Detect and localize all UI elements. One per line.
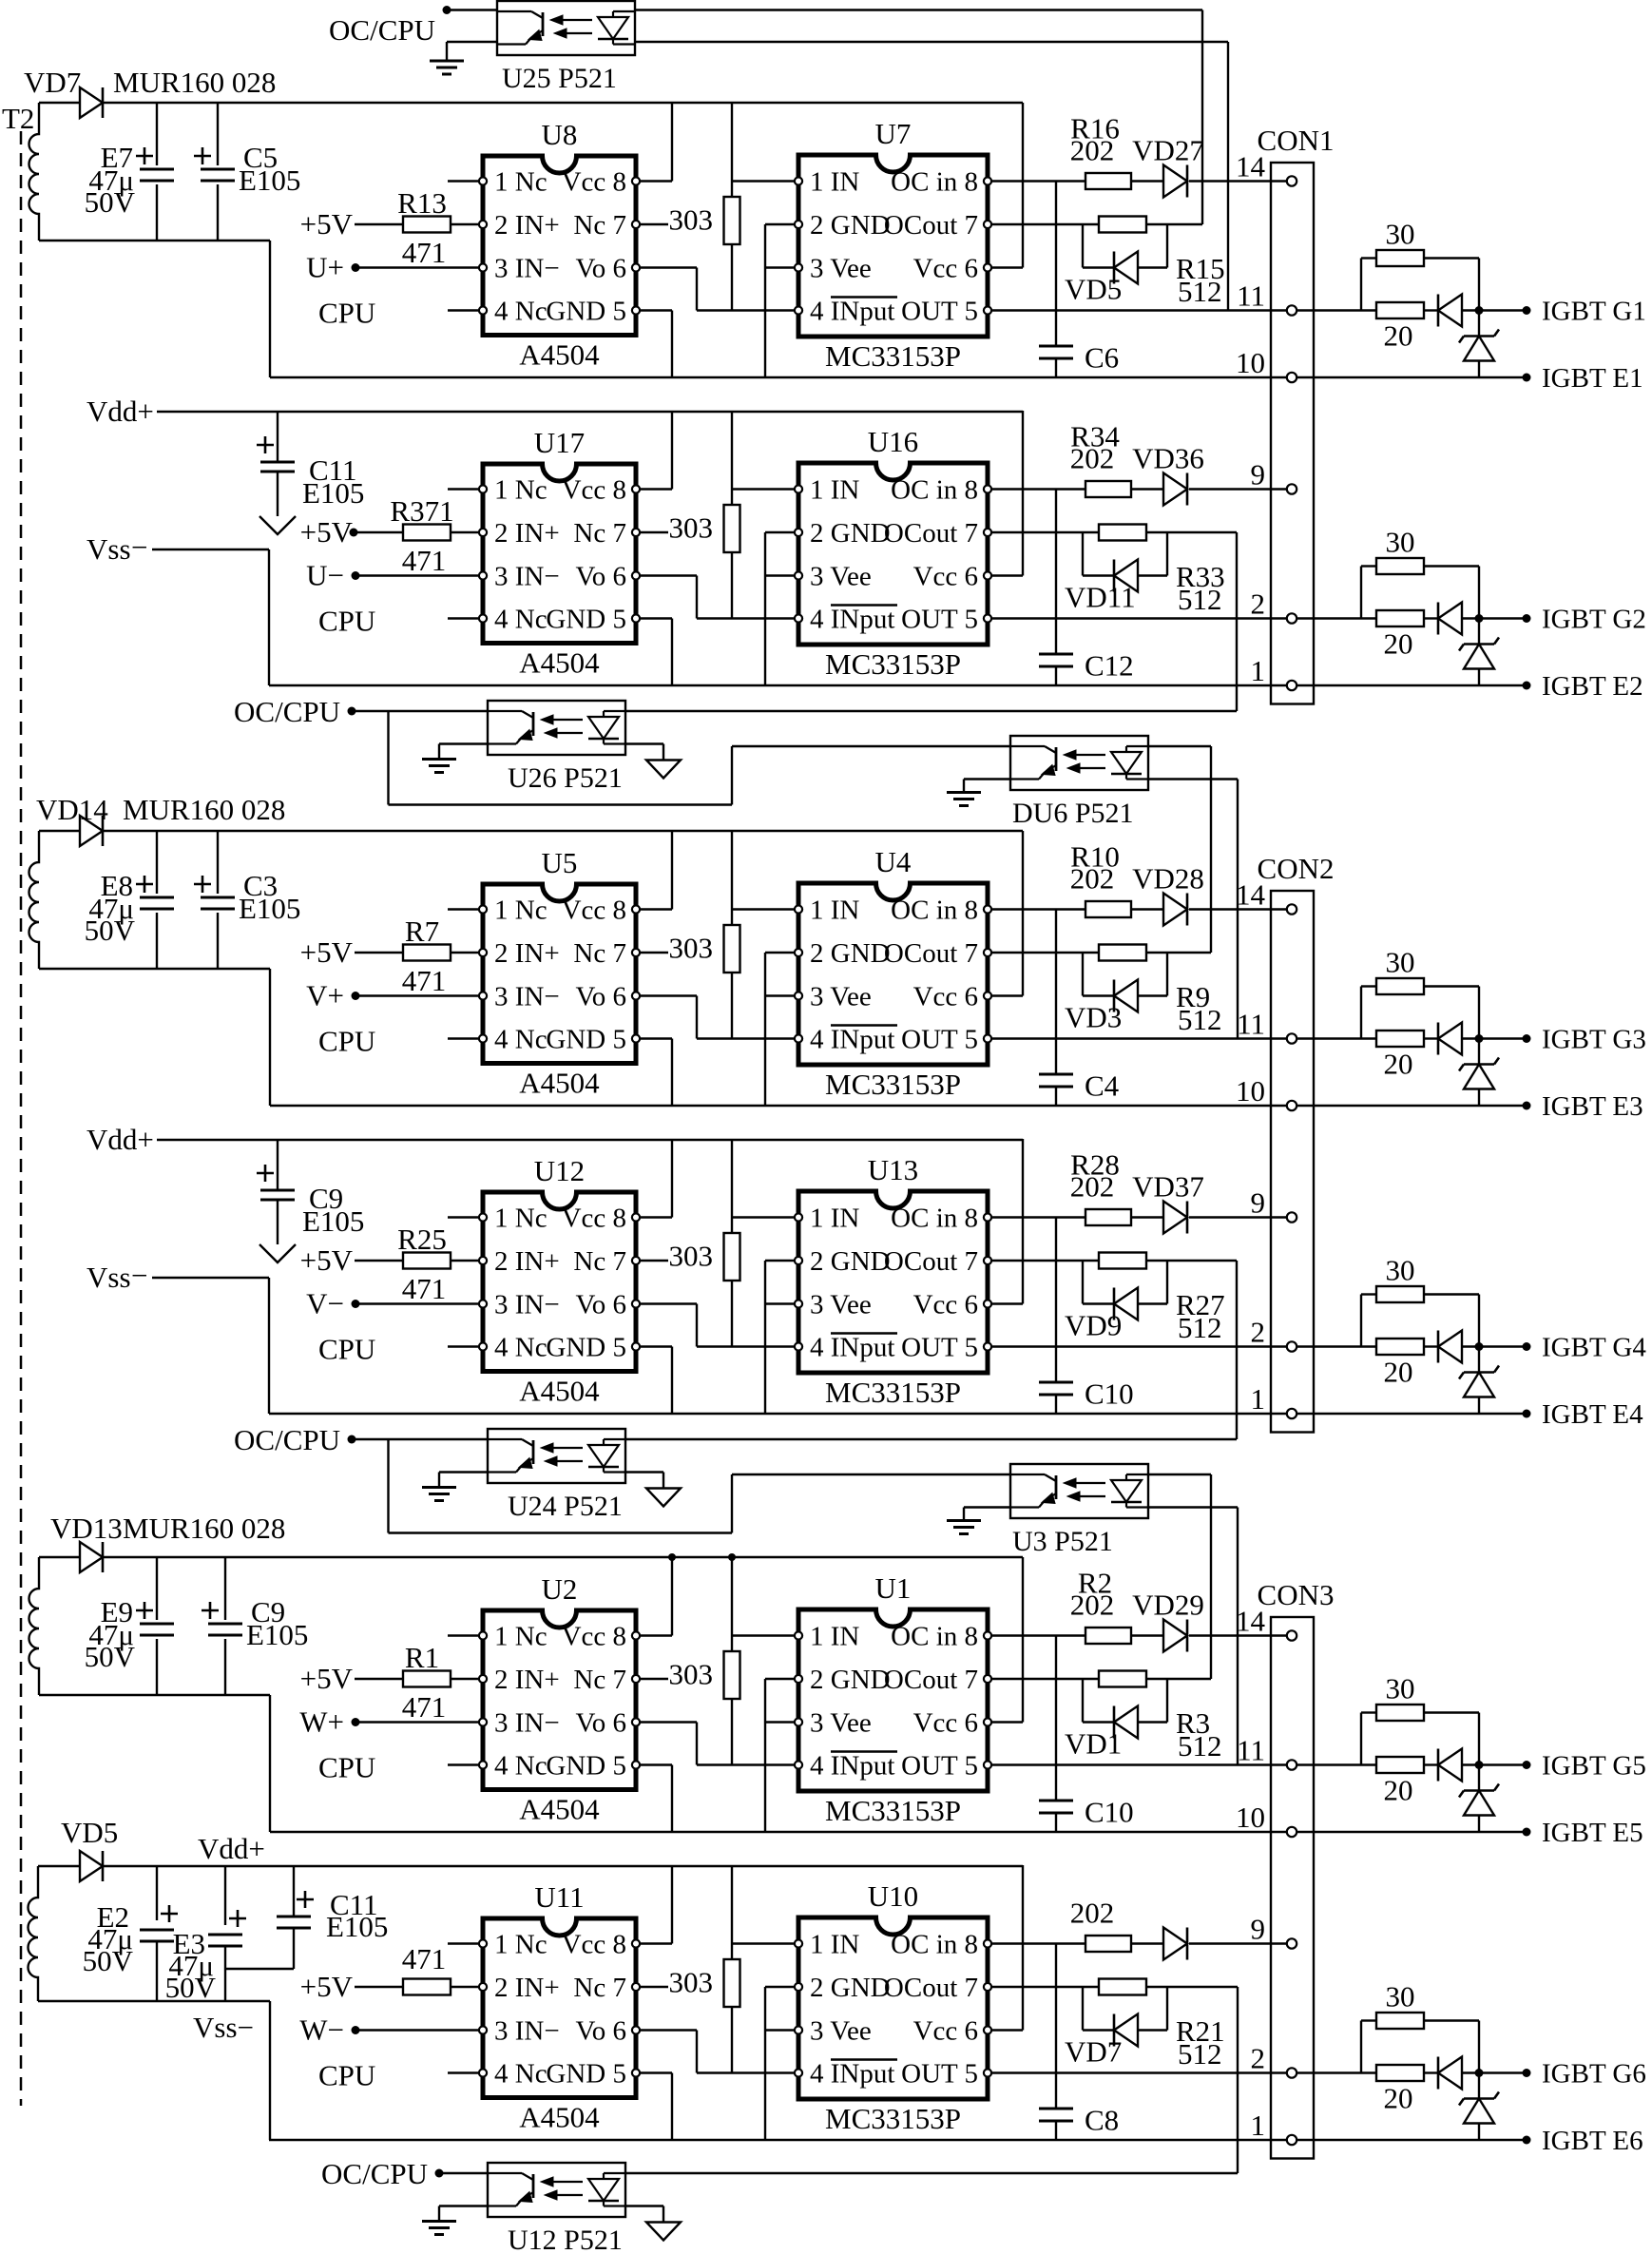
svg-text:50V: 50V [83, 1944, 134, 1977]
gate resistor 30 parallel branch [1360, 2021, 1362, 2073]
gate resistor 20 [1376, 1031, 1424, 1047]
svg-text:IGBT G3: IGBT G3 [1542, 1025, 1646, 1055]
svg-text:4 Nc: 4 Nc [494, 1025, 547, 1055]
svg-text:14: 14 [1236, 878, 1266, 912]
Vss wire to bottom rail [152, 1277, 269, 1279]
DU6 LED cathode wire down to OUT line [1149, 778, 1238, 780]
wire U8 Vo pin 6 to U7 INput pin 4 [641, 266, 697, 268]
resistor R25 471 [355, 1260, 403, 1262]
wire stub to U17 pin 1 [448, 488, 478, 490]
wire U8 GND pin 5 to bottom rail [641, 309, 672, 311]
optocoupler DU6 P521 LED [1126, 745, 1148, 747]
svg-text:2 IN+: 2 IN+ [494, 518, 560, 549]
svg-text:Vcc 6: Vcc 6 [913, 562, 978, 592]
svg-text:+5V: +5V [300, 1662, 354, 1695]
ground (U24) [422, 1486, 456, 1489]
resistor 471 471 [355, 1986, 403, 1988]
wire U1 OC in pin 8 to resistor R2 [992, 1634, 1085, 1636]
optocoupler U24 P521 body [488, 1429, 625, 1483]
svg-text:VD14: VD14 [36, 793, 108, 826]
wire supply rail to U4 IN pin 1 [731, 831, 733, 925]
svg-text:3 Vee: 3 Vee [810, 562, 872, 592]
wire U11 GND pin 5 to bottom rail [641, 2071, 672, 2073]
svg-text:OCout 7: OCout 7 [884, 1246, 978, 1277]
wire U16 Vcc pin 6 to supply rail [992, 574, 1023, 576]
diode VD11 anti-parallel [1082, 532, 1084, 576]
wire to diode VD27 [1131, 180, 1163, 182]
wire stub U2 pin 7 [641, 1678, 668, 1680]
svg-text:2 GND: 2 GND [810, 938, 891, 969]
wire supply rail to U7 IN pin 1 [731, 103, 733, 197]
svg-text:MC33153P: MC33153P [825, 339, 961, 373]
wire U1 OUT pin 5 / connector pin line [992, 1763, 1376, 1765]
gate diode [1424, 617, 1438, 619]
svg-text:VD13: VD13 [50, 1512, 123, 1545]
capacitor C6 [1055, 182, 1057, 345]
wire 303 resistor to INput line [731, 244, 733, 311]
svg-text:50V: 50V [165, 1971, 217, 2004]
wire to bottom rail [269, 2001, 271, 2140]
svg-text:4 INput: 4 INput [810, 1333, 894, 1363]
terminal IGBT G6 [1523, 2069, 1531, 2077]
resistor R10 202 [1085, 901, 1131, 917]
decoupling capacitor C11 E105 [277, 412, 279, 462]
svg-text:IGBT E5: IGBT E5 [1542, 1818, 1643, 1848]
svg-text:CON3: CON3 [1258, 1578, 1335, 1611]
wire U7 OCout pin 7 to resistor R15 [992, 223, 1099, 225]
terminal IGBT E2 [1523, 682, 1531, 690]
electrolytic capacitor E8 47u 50V [156, 831, 158, 969]
Vdd+ rail [157, 1139, 1023, 1141]
diode VD29 [1163, 1620, 1187, 1652]
wire U13 Vcc pin 6 to supply rail [992, 1302, 1023, 1304]
svg-text:4 INput: 4 INput [810, 1751, 894, 1782]
U26 LED anode wire from R512 node [625, 710, 1237, 712]
wire U16 OC in pin 8 to resistor R34 [992, 488, 1085, 490]
resistor R27 512 [1099, 1253, 1146, 1269]
U24 emitter wire to ground [439, 1471, 488, 1473]
wire U10 GND pin 2 / Vee pin 3 to bottom rail [765, 1986, 794, 1988]
svg-text:CPU: CPU [318, 1025, 375, 1058]
svg-text:VD11: VD11 [1065, 581, 1136, 614]
svg-text:3 Vee: 3 Vee [810, 2016, 872, 2047]
zener clamp diode [1478, 1765, 1480, 1791]
svg-text:E105: E105 [246, 1618, 308, 1651]
svg-text:Vo 6: Vo 6 [576, 2016, 626, 2047]
svg-text:DU6 P521: DU6 P521 [1012, 798, 1134, 829]
svg-text:2 GND: 2 GND [810, 518, 891, 549]
svg-text:3 IN−: 3 IN− [494, 1290, 560, 1320]
svg-text:1 Nc: 1 Nc [494, 167, 547, 198]
terminal IGBT E1 [1523, 374, 1531, 382]
svg-text:VD27: VD27 [1132, 134, 1204, 167]
wire U1 GND pin 2 / Vee pin 3 to bottom rail [765, 1678, 794, 1680]
gate driver IC U4 (MC33153P) [798, 883, 988, 1065]
svg-text:4 INput: 4 INput [810, 2059, 894, 2090]
wire U2 Vo pin 6 to U1 INput pin 4 [641, 1721, 697, 1723]
svg-text:Vdd+: Vdd+ [86, 395, 154, 428]
resistor 303 [724, 1651, 740, 1699]
wire to diode VD36 [1131, 488, 1163, 490]
capacitor C12 [1055, 490, 1057, 653]
resistor R9 512 [1099, 945, 1146, 961]
optocoupler U3 P521 light arrows [1071, 1482, 1105, 1484]
opto-isolator IC U17 (A4504) [483, 464, 636, 644]
zener clamp diode [1478, 1039, 1480, 1065]
svg-text:C6: C6 [1085, 341, 1119, 375]
resistor 303 [724, 1233, 740, 1281]
bottom rail row [270, 1105, 1376, 1107]
wire U5 GND pin 5 to bottom rail [641, 1037, 672, 1039]
opto-isolator IC U11 (A4504) [483, 1918, 636, 2098]
svg-text:IGBT G2: IGBT G2 [1542, 605, 1646, 635]
wire stub to U2 pin 4 [448, 1763, 478, 1765]
svg-text:4 Nc: 4 Nc [494, 1751, 547, 1782]
wire diode to CON pin [1189, 1942, 1286, 1944]
optocoupler U12 P521 light arrows [548, 2181, 583, 2183]
wire winding bottom [38, 2000, 270, 2002]
svg-text:Vcc 8: Vcc 8 [562, 1204, 626, 1234]
svg-text:471: 471 [402, 236, 447, 269]
wire U1 Vcc pin 6 to supply rail [992, 1721, 1023, 1723]
optocoupler U25 P521 light arrows [558, 19, 592, 21]
svg-text:E105: E105 [302, 1204, 364, 1238]
resistor R16 202 [1085, 173, 1131, 189]
transformer T2 winding [29, 1866, 39, 2001]
svg-text:471: 471 [402, 1942, 447, 1975]
wire stub to U17 pin 4 [448, 617, 478, 619]
node OC/CPU (U25) [443, 6, 451, 14]
wire U10 OC in pin 8 to resistor 202 [992, 1942, 1085, 1944]
svg-text:Nc 7: Nc 7 [573, 1973, 626, 2003]
resistor R33 512 [1099, 525, 1146, 541]
svg-text:1 IN: 1 IN [810, 1204, 859, 1234]
bottom rail row2 [269, 1413, 1376, 1415]
svg-text:IGBT E4: IGBT E4 [1542, 1399, 1643, 1430]
junction gate node [1475, 1034, 1484, 1043]
gate resistor 20 [1376, 1339, 1424, 1355]
svg-text:V+: V+ [306, 979, 344, 1012]
gate driver IC U1 (MC33153P) [798, 1609, 988, 1791]
U12 collector wire [439, 2172, 488, 2174]
svg-text:Vcc 8: Vcc 8 [562, 1622, 626, 1652]
capacitor C4 [1055, 910, 1057, 1073]
wire U17 GND pin 5 to bottom rail [641, 617, 672, 619]
node OC/CPU (U24) [348, 1435, 356, 1444]
svg-text:30: 30 [1386, 1254, 1415, 1287]
svg-text:2 GND: 2 GND [810, 1246, 891, 1277]
optocoupler U3 P521 phototransistor [1010, 1474, 1045, 1475]
gate resistor 20 [1376, 2065, 1424, 2081]
chassis ground for cap [259, 1244, 296, 1262]
svg-text:3 Vee: 3 Vee [810, 982, 872, 1012]
U3 LED anode wire down to OCout node [1149, 1474, 1211, 1475]
svg-text:GND 5: GND 5 [546, 2059, 626, 2090]
svg-text:1 Nc: 1 Nc [494, 1930, 547, 1960]
svg-text:R1: R1 [405, 1641, 439, 1674]
optocoupler U26 P521 light arrows [548, 719, 583, 721]
svg-text:30: 30 [1386, 1672, 1415, 1705]
svg-text:471: 471 [402, 1272, 447, 1305]
electrolytic capacitor E3 47u 50V [224, 1866, 226, 2001]
svg-text:512: 512 [1178, 2037, 1222, 2071]
svg-text:2 GND: 2 GND [810, 1973, 891, 2003]
wire U12 GND pin 5 to bottom rail [641, 1345, 672, 1347]
wire U11 Vo pin 6 to U10 INput pin 4 [641, 2029, 697, 2031]
svg-text:GND 5: GND 5 [546, 605, 626, 635]
U24 collector wire [352, 1438, 488, 1440]
bottom rail row2 [269, 2139, 1376, 2141]
wire U13 OC in pin 8 to resistor R28 [992, 1216, 1085, 1218]
Vdd+ rail [157, 411, 1023, 413]
svg-text:4 Nc: 4 Nc [494, 2059, 547, 2090]
svg-text:CPU: CPU [318, 1751, 375, 1784]
svg-text:C10: C10 [1085, 1377, 1134, 1411]
svg-text:1 IN: 1 IN [810, 1930, 859, 1960]
svg-text:1 IN: 1 IN [810, 475, 859, 506]
floating net symbol (U26) [646, 761, 681, 779]
gate driver IC U10 (MC33153P) [798, 1917, 988, 2099]
svg-text:303: 303 [669, 203, 714, 237]
ground (U26) [422, 758, 456, 761]
svg-text:U25 P521: U25 P521 [502, 63, 617, 94]
wire diode to CON pin [1189, 488, 1286, 490]
wire U5 Vo pin 6 to U4 INput pin 4 [641, 994, 697, 996]
resistor R15 512 [1099, 217, 1146, 233]
svg-text:1 IN: 1 IN [810, 1622, 859, 1652]
svg-text:OC in 8: OC in 8 [891, 1930, 978, 1960]
optocoupler U25 P521 body [497, 1, 635, 55]
svg-text:IGBT E6: IGBT E6 [1542, 2126, 1643, 2156]
svg-text:U13: U13 [868, 1153, 918, 1186]
resistor R21 512 [1099, 1979, 1146, 1995]
wire cap bottom to row bottom rail [269, 969, 271, 1106]
svg-text:OC in 8: OC in 8 [891, 1204, 978, 1234]
wire U10 OCout pin 7 to resistor R21 [992, 1986, 1099, 1988]
svg-text:C12: C12 [1085, 649, 1134, 683]
gate diode [1424, 1037, 1438, 1039]
svg-text:CPU: CPU [318, 297, 375, 330]
gate resistor 30 parallel branch [1360, 1713, 1362, 1765]
optocoupler U3 P521 LED [1126, 1474, 1148, 1475]
wire U7 Vcc pin 6 to supply rail [992, 266, 1023, 268]
svg-text:10: 10 [1236, 1074, 1265, 1108]
svg-text:MUR160 028: MUR160 028 [123, 793, 285, 826]
svg-text:OC/CPU: OC/CPU [321, 2157, 428, 2190]
svg-text:50V: 50V [85, 1640, 136, 1673]
U24 LED cathode wire to floating symbol [625, 1471, 663, 1473]
svg-text:1 Nc: 1 Nc [494, 896, 547, 926]
optocoupler U26 P521 body [488, 701, 625, 755]
svg-text:4 Nc: 4 Nc [494, 605, 547, 635]
svg-text:U24 P521: U24 P521 [508, 1491, 623, 1522]
junction gate node [1475, 614, 1484, 623]
wire U16 GND pin 2 / Vee pin 3 to bottom rail [765, 531, 794, 533]
node OC/CPU (U26) [348, 707, 356, 716]
U24 LED anode wire from R512 node [625, 1438, 1237, 1440]
svg-text:W+: W+ [299, 1705, 344, 1739]
svg-text:14: 14 [1236, 1605, 1266, 1638]
svg-text:IGBT E1: IGBT E1 [1542, 363, 1643, 394]
zener clamp diode [1478, 2073, 1480, 2099]
svg-text:3 Vee: 3 Vee [810, 254, 872, 284]
optocoupler U12 P521 LED [604, 2172, 625, 2174]
wire to diode VD37 [1131, 1216, 1163, 1218]
svg-text:512: 512 [1178, 1003, 1222, 1036]
svg-text:OC in 8: OC in 8 [891, 475, 978, 506]
svg-text:U−: U− [306, 559, 344, 592]
svg-text:2 IN+: 2 IN+ [494, 1246, 560, 1277]
terminal IGBT G3 [1523, 1034, 1531, 1043]
diode VD5 anti-parallel [1082, 224, 1084, 268]
diode VD3 anti-parallel [1082, 953, 1084, 996]
wire U11 Vcc pin 8 to supply rail [641, 1942, 672, 1944]
svg-text:Vcc 6: Vcc 6 [913, 254, 978, 284]
svg-text:20: 20 [1384, 1774, 1413, 1807]
svg-text:1 IN: 1 IN [810, 896, 859, 926]
svg-text:R25: R25 [397, 1223, 447, 1256]
svg-text:E105: E105 [326, 1910, 388, 1943]
svg-text:C10: C10 [1085, 1796, 1134, 1829]
svg-text:Nc 7: Nc 7 [573, 1246, 626, 1277]
svg-text:Vcc 6: Vcc 6 [913, 982, 978, 1012]
wire U13 OUT pin 5 / connector pin line [992, 1345, 1376, 1347]
optocoupler U3 P521 body [1010, 1464, 1148, 1518]
wire U16 OUT pin 5 / connector pin line [992, 617, 1376, 619]
svg-text:2 IN+: 2 IN+ [494, 1665, 560, 1695]
svg-text:3 IN−: 3 IN− [494, 1708, 560, 1739]
resistor 303 [724, 1959, 740, 2007]
svg-text:471: 471 [402, 964, 447, 997]
electrolytic capacitor C11 E105 [293, 1866, 295, 1917]
svg-text:U26 P521: U26 P521 [508, 762, 623, 794]
diode VD [1163, 1928, 1187, 1960]
svg-text:OC in 8: OC in 8 [891, 896, 978, 926]
wire U12 Vcc pin 8 to supply rail [641, 1216, 672, 1218]
svg-text:R13: R13 [397, 186, 447, 220]
electrolytic capacitor E7 47u 50V [156, 103, 158, 241]
gate diode [1424, 2071, 1438, 2073]
diode VD27 [1163, 165, 1187, 198]
resistor 303 [724, 925, 740, 973]
svg-text:V−: V− [306, 1287, 344, 1320]
wire diode to CON pin [1189, 1216, 1286, 1218]
wire R9 to opto branch [1146, 952, 1211, 954]
svg-text:U1: U1 [875, 1571, 912, 1605]
resistor R13 471 [355, 223, 403, 225]
svg-text:E105: E105 [302, 476, 364, 510]
svg-text:10: 10 [1236, 346, 1265, 379]
wire stub U8 pin 7 [641, 223, 668, 225]
svg-text:2: 2 [1251, 588, 1266, 621]
svg-text:GND 5: GND 5 [546, 1025, 626, 1055]
diode VD28 [1163, 894, 1187, 926]
wire 303 resistor to INput line [731, 1699, 733, 1765]
svg-text:A4504: A4504 [519, 1067, 600, 1100]
svg-text:3 IN−: 3 IN− [494, 254, 560, 284]
optocoupler DU6 P521 phototransistor [1010, 745, 1045, 747]
junction gate node [1475, 1761, 1484, 1769]
diode VD1 anti-parallel [1082, 1679, 1084, 1723]
svg-text:20: 20 [1384, 1356, 1413, 1389]
wire U17 Vcc pin 8 to supply rail [641, 488, 672, 490]
svg-text:512: 512 [1178, 583, 1222, 616]
svg-text:Vo 6: Vo 6 [576, 1290, 626, 1320]
svg-text:303: 303 [669, 511, 714, 545]
U25 emitter wire to ground [447, 41, 497, 43]
svg-text:Nc 7: Nc 7 [573, 938, 626, 969]
svg-text:4 INput: 4 INput [810, 1025, 894, 1055]
svg-text:GND 5: GND 5 [546, 297, 626, 327]
U3 emitter wire to ground [964, 1506, 1010, 1508]
svg-text:Vo 6: Vo 6 [576, 982, 626, 1012]
terminal IGBT E5 [1523, 1828, 1531, 1837]
svg-text:−: − [131, 530, 147, 564]
svg-text:U16: U16 [868, 425, 918, 458]
gate diode [1424, 1345, 1438, 1347]
wire U4 OC in pin 8 to resistor R10 [992, 908, 1085, 910]
wire U13 OCout pin 7 to resistor R27 [992, 1260, 1099, 1262]
svg-text:Vcc 8: Vcc 8 [562, 1930, 626, 1960]
optocoupler U26 P521 phototransistor [488, 710, 522, 712]
svg-text:C4: C4 [1085, 1069, 1120, 1103]
svg-text:+5V: +5V [300, 207, 354, 241]
wire cap bottom to row bottom rail [269, 241, 271, 377]
optocoupler U12 P521 body [488, 2163, 625, 2217]
transformer T2 core dashed line [20, 131, 23, 2106]
svg-text:MUR160 028: MUR160 028 [113, 66, 276, 99]
svg-text:512: 512 [1178, 1729, 1222, 1763]
svg-text:A4504: A4504 [519, 1793, 600, 1826]
svg-text:Vss−: Vss− [193, 2011, 254, 2044]
svg-text:U11: U11 [534, 1880, 584, 1914]
optocoupler U25 P521 LED [613, 10, 635, 12]
resistor R371 471 [355, 531, 403, 533]
electrolytic capacitor E2 47u 50V [156, 1866, 158, 2001]
svg-text:A4504: A4504 [519, 338, 600, 372]
resistor R2 202 [1085, 1628, 1131, 1644]
wire OC/CPU to next opto collector [387, 1439, 389, 1533]
wire U7 OUT pin 5 / connector pin line [992, 309, 1376, 311]
resistor 303 [724, 197, 740, 244]
section 2 supply rail [39, 830, 80, 832]
wire to diode VD [1131, 1942, 1163, 1944]
wire supply rail to U13 IN pin 1 [731, 1139, 733, 1233]
svg-text:4 INput: 4 INput [810, 605, 894, 635]
terminal IGBT G2 [1523, 614, 1531, 623]
svg-text:IGBT E3: IGBT E3 [1542, 1091, 1643, 1122]
svg-text:3 Vee: 3 Vee [810, 1290, 872, 1320]
svg-text:202: 202 [1070, 1589, 1115, 1622]
svg-text:MC33153P: MC33153P [825, 1376, 961, 1409]
wire stub to U8 pin 1 [448, 180, 478, 182]
svg-text:471: 471 [402, 1690, 447, 1724]
connector CON3 [1271, 1617, 1314, 2159]
bottom rail row2 [269, 684, 1376, 686]
wire U16 OCout pin 7 to resistor R33 [992, 531, 1099, 533]
svg-text:Vss: Vss [86, 532, 131, 566]
gate resistor 30 parallel branch [1360, 259, 1362, 311]
DU6 LED anode wire down to OCout node [1149, 745, 1211, 747]
svg-text:W−: W− [299, 2013, 344, 2047]
ground (U3) [947, 1519, 981, 1522]
svg-text:3 IN−: 3 IN− [494, 982, 560, 1012]
svg-text:U12: U12 [534, 1154, 585, 1187]
diode VD7 anti-parallel [1082, 1987, 1084, 2031]
resistor R1 471 [355, 1678, 403, 1680]
transformer T2 winding [29, 1557, 39, 1695]
svg-text:2 GND: 2 GND [810, 1665, 891, 1695]
